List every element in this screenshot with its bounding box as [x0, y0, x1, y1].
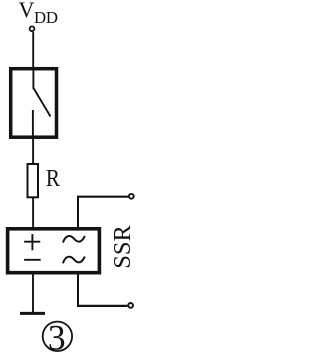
figure number circle 3 — [43, 322, 72, 351]
wire SSR DC- to ground — [32, 273, 34, 314]
svg-text:DD: DD — [34, 8, 58, 27]
wire resistor to SSR DC+ — [32, 197, 34, 229]
SSR box (solid state relay) — [8, 229, 100, 273]
terminal (open circle) AC2 — [128, 303, 133, 308]
wire switch box to resistor R — [32, 137, 34, 164]
svg-text:SSR: SSR — [109, 225, 136, 269]
switch upper contact — [32, 69, 34, 89]
switch box (enclosure) — [11, 69, 57, 138]
wire SSR AC1 up — [77, 196, 79, 229]
wire to AC2 terminal — [77, 305, 127, 307]
AC tilde lower — [63, 257, 85, 264]
ground bar — [20, 312, 45, 315]
wire VDD terminal to switch box — [32, 32, 34, 69]
plus symbol (DC+) — [24, 234, 40, 250]
switch blade (open) — [34, 88, 51, 116]
terminal (open circle) AC1 — [129, 194, 134, 199]
svg-text:3: 3 — [48, 317, 66, 357]
svg-text:V: V — [19, 0, 35, 22]
minus symbol (DC-) — [24, 259, 41, 261]
AC tilde upper — [63, 236, 85, 243]
resistor R (IEC rectangle) — [28, 164, 39, 197]
net label VDD — [19, 0, 58, 27]
switch lower contact — [32, 110, 34, 137]
terminal (open circle) VDD — [30, 26, 35, 31]
wire SSR AC2 down — [77, 273, 79, 307]
wire to AC1 terminal — [77, 196, 128, 198]
svg-text:R: R — [46, 165, 61, 192]
